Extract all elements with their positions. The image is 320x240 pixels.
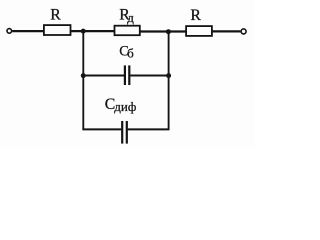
svg-text:R: R	[50, 7, 61, 24]
resistor R (left)	[44, 25, 71, 35]
svg-text:диф: диф	[114, 99, 136, 114]
node B junction dot	[166, 29, 171, 34]
node D junction dot	[166, 73, 171, 78]
capacitor Cб plates	[124, 65, 126, 85]
wire Сдиф branch right (bottom)	[128, 128, 170, 130]
wire Cб branch left	[83, 75, 124, 77]
wire left terminal to R	[12, 30, 43, 32]
wire vertical left branch	[82, 31, 84, 129]
terminal right	[241, 29, 246, 34]
wire R to right terminal	[212, 30, 241, 32]
capacitor Сдиф plates	[121, 121, 123, 144]
node A junction dot	[81, 29, 86, 34]
svg-text:б: б	[127, 45, 134, 60]
node C junction dot	[81, 73, 86, 78]
wire vertical right branch	[168, 32, 170, 130]
resistor R (right)	[186, 26, 212, 36]
wire Cб branch right	[130, 75, 168, 77]
resistor Rд	[115, 26, 140, 36]
terminal left	[7, 29, 12, 34]
wire R to Rд	[71, 30, 115, 32]
svg-text:д: д	[127, 10, 134, 25]
svg-text:R: R	[190, 7, 201, 24]
wire Rд to R	[140, 30, 186, 32]
wire Сдиф branch left (bottom)	[82, 128, 121, 130]
